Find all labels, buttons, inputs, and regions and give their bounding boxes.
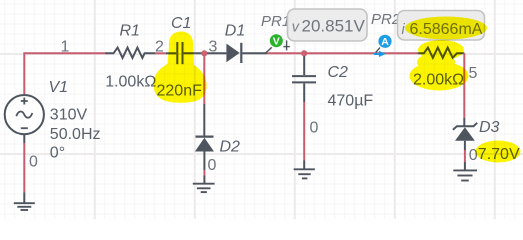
ground at V1 — [14, 203, 35, 210]
svg-text:v: v — [292, 20, 300, 36]
highlight 6.5866mA — [405, 17, 487, 91]
svg-text:20.851V: 20.851V — [302, 17, 366, 36]
svg-text:V1: V1 — [49, 79, 69, 96]
resistor R2 — [417, 48, 464, 58]
ground at D3 — [453, 170, 477, 180]
svg-text:C1: C1 — [171, 15, 191, 32]
zener diode D3 — [453, 123, 477, 171]
probe PR1 leader — [265, 47, 272, 53]
svg-text:PR1: PR1 — [261, 13, 290, 30]
capacitor C2 — [292, 56, 316, 102]
svg-text:D3: D3 — [479, 119, 500, 136]
svg-text:0: 0 — [208, 157, 217, 174]
probe PR2 current arrow — [374, 51, 386, 57]
probe PR2 circle A — [378, 35, 391, 48]
wire V1 to ground — [23, 134, 25, 143]
probe PR2 readout box — [398, 11, 485, 41]
diode D2 — [195, 137, 214, 184]
highlight 7.70V — [476, 141, 521, 163]
svg-text:0: 0 — [29, 154, 38, 171]
junction C2 tap — [301, 50, 307, 56]
svg-text:A: A — [381, 36, 389, 48]
wire net4 after D1 — [267, 52, 417, 54]
svg-text:D1: D1 — [225, 23, 245, 40]
svg-text:D2: D2 — [220, 139, 241, 156]
svg-text:V: V — [273, 36, 280, 48]
svg-text:0°: 0° — [50, 145, 65, 162]
wire C2 to ground — [303, 102, 305, 161]
svg-text:2: 2 — [155, 39, 164, 56]
junction node 3 — [201, 50, 207, 56]
resistor R1 — [105, 48, 155, 58]
wire node5 vertical — [463, 53, 465, 118]
svg-text:5: 5 — [469, 65, 478, 82]
svg-text:470µF: 470µF — [328, 93, 374, 110]
wire net1 top-left horizontal — [24, 53, 105, 94]
diode D1 — [207, 43, 267, 63]
probe PR1 circle V — [270, 34, 283, 47]
svg-text:0: 0 — [310, 120, 319, 137]
ground at D2 — [193, 184, 215, 192]
svg-text:PR2: PR2 — [371, 11, 401, 28]
svg-text:1.00kΩ: 1.00kΩ — [105, 74, 156, 91]
probe PR2 leader — [376, 48, 380, 53]
highlight C1 220nF — [153, 32, 206, 103]
capacitor C1 — [166, 42, 202, 64]
svg-text:R1: R1 — [120, 23, 140, 40]
svg-text:310V: 310V — [50, 107, 88, 124]
wire node3 vertical to D2 — [203, 53, 205, 104]
wire node2 segment — [155, 52, 166, 54]
probe PR1 plus — [283, 40, 289, 50]
svg-text:1: 1 — [61, 39, 70, 56]
ground at C2 — [294, 169, 315, 178]
svg-text:C2: C2 — [328, 64, 349, 81]
svg-text:50.0Hz: 50.0Hz — [50, 126, 101, 143]
probe PR1 readout box — [288, 9, 368, 41]
AC source V1 — [5, 95, 44, 134]
